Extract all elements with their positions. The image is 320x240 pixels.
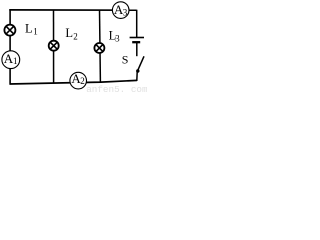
svg-text:L: L (65, 26, 73, 40)
svg-text:1: 1 (13, 56, 18, 66)
svg-text:3: 3 (123, 8, 128, 18)
lamp L2 (49, 41, 59, 51)
switch S blade (137, 56, 144, 71)
wire battery to switch (136, 42, 138, 56)
svg-text:L: L (25, 21, 33, 35)
svg-text:3: 3 (115, 33, 120, 43)
lamp L1 (4, 25, 15, 36)
svg-text:1: 1 (33, 27, 38, 37)
wire right branch L3 (99, 10, 102, 83)
wire right vertical top (A3 to battery) (136, 10, 138, 38)
switch pivot dot (136, 69, 139, 72)
wire bottom horizontal (10, 80, 137, 84)
ammeter A3 (112, 2, 129, 19)
svg-text:2: 2 (80, 76, 85, 86)
wire left vertical (9, 9, 11, 84)
wire top horizontal (9, 9, 136, 11)
ammeter A1 (2, 51, 20, 69)
svg-text:2: 2 (73, 32, 78, 42)
battery cell long plate (130, 37, 144, 39)
ammeter A2 (70, 71, 87, 89)
wire middle branch (53, 10, 55, 84)
wire switch to bottom corner (136, 72, 138, 82)
svg-text:S: S (122, 53, 129, 67)
battery cell short plate (132, 41, 140, 43)
svg-text:anfen5. com: anfen5. com (86, 84, 147, 93)
lamp L3 (94, 43, 104, 53)
